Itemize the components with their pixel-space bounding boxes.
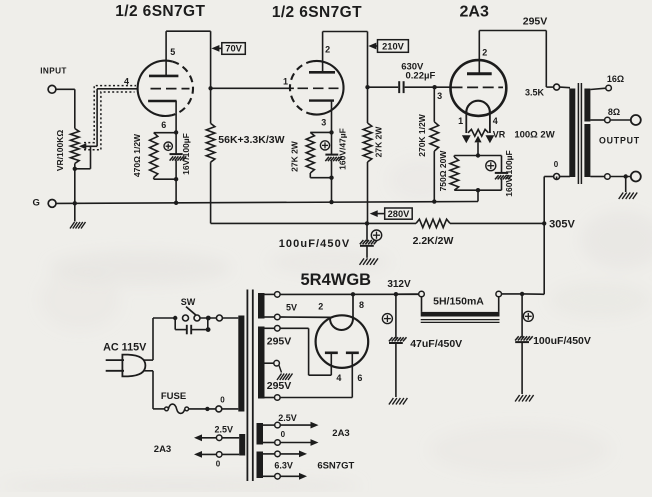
pin 1 label 2A3 [458, 116, 463, 126]
label VR/100K [55, 130, 65, 171]
wire choke to 312V node [396, 293, 419, 295]
tube 2A3 envelope [451, 60, 507, 116]
wire wiper up to grid [97, 89, 137, 147]
tube V1 plate lead [165, 31, 167, 76]
label 0 right [281, 430, 286, 439]
junction on G bus at x331 [329, 200, 333, 204]
label 2A3 left [154, 444, 171, 455]
primary top terminal [216, 315, 222, 321]
svg-text:3: 3 [437, 91, 442, 101]
filament leads [466, 113, 490, 134]
wire 5V bottom tap [265, 316, 275, 318]
arrow 210V test point [368, 43, 377, 50]
junction switch right [206, 316, 211, 321]
INPUT label [40, 66, 67, 75]
junction 305V node [542, 221, 546, 225]
chassis ground OPT [619, 193, 638, 200]
wire pin 4 to HV tap [280, 328, 331, 375]
arrow 2.5V to 2A3 [280, 422, 318, 429]
OPT secondary winding upper [584, 89, 590, 122]
svg-text:27K 2W: 27K 2W [374, 126, 384, 158]
svg-text:100Ω 2W: 100Ω 2W [514, 130, 554, 141]
junction V1 cathode top [174, 130, 178, 134]
svg-text:4: 4 [493, 116, 498, 126]
pin 1 label [283, 77, 288, 87]
label 295V (plate supply) [523, 15, 548, 27]
label 630V [401, 62, 424, 73]
wire V2 cathode net to G bus [331, 178, 333, 202]
potentiometer VR/100K ohm [71, 129, 80, 164]
OPT secondary winding lower [584, 124, 590, 177]
resistor 270K 1/2W grid leak [430, 87, 439, 201]
junction 0 tap ground [624, 174, 628, 178]
arrow 6.3V top [280, 451, 307, 458]
svg-text:0.22µF: 0.22µF [406, 71, 436, 82]
svg-text:6: 6 [161, 120, 166, 130]
svg-text:305V: 305V [549, 219, 575, 231]
wire 8 ohm tap [590, 119, 604, 121]
tube 5R4 plate left [325, 351, 338, 354]
label 295V upper [267, 336, 292, 348]
svg-text:2: 2 [325, 45, 330, 55]
wire V2 plate top rail [323, 31, 368, 33]
wire coupling cap to 2A3 grid [405, 86, 435, 88]
input terminal [48, 85, 56, 93]
capacitor C2 160V/47uF [325, 132, 342, 177]
plus symbol C4 [486, 161, 496, 171]
wire terminal to primary winding bottom [222, 408, 239, 410]
8 ohm tap terminal [605, 117, 611, 123]
wire V2 cathode net bottom [310, 177, 331, 179]
pin 3 label [321, 118, 326, 128]
label 100uF/450V reservoir [533, 335, 591, 347]
chassis ground C3 [360, 258, 379, 265]
tube V1 envelope dashed arc [172, 62, 194, 116]
tube V1 grid (dashed) [151, 88, 190, 90]
tube 5R4 plate right [346, 351, 359, 354]
wire V2 plate to coupling cap [368, 86, 399, 88]
svg-text:1: 1 [458, 116, 463, 126]
wire switch to primary [200, 317, 216, 319]
left 2.5V top terminal [216, 435, 222, 441]
label 2A3 right [332, 428, 349, 439]
label 3.5K [525, 87, 545, 97]
label 8 ohm [608, 107, 620, 117]
chassis ground C6 [515, 395, 534, 402]
HV bottom tap terminal 295V [275, 395, 281, 401]
wire pin 2 from 5V tap [280, 316, 330, 318]
svg-text:280V: 280V [388, 209, 411, 219]
ground terminal G [48, 200, 56, 208]
svg-text:160V/47µF: 160V/47µF [338, 128, 348, 170]
tube V1 cathode lead [175, 101, 177, 132]
wire pin 8 from rail [352, 294, 354, 318]
svg-text:6SN7GT: 6SN7GT [317, 460, 354, 471]
svg-text:70V: 70V [225, 44, 242, 54]
wire 2A3 plate rail 295V [479, 31, 553, 88]
OPT core [578, 83, 581, 184]
left 2.5V bottom terminal [216, 452, 222, 458]
junction G bus input [73, 201, 77, 205]
wire left 2.5V top tap [222, 437, 239, 439]
label SW [181, 297, 196, 307]
wire HV bottom tap [265, 397, 275, 399]
primary bottom terminal [216, 406, 222, 412]
svg-text:470Ω 1/2W: 470Ω 1/2W [132, 133, 142, 177]
svg-text:2.5V: 2.5V [215, 425, 234, 435]
label 270K 1/2W [417, 113, 427, 156]
wire 6.3V top tap [263, 453, 275, 455]
wire primary bottom to 305V [544, 177, 556, 224]
wire 8 ohm to output [610, 119, 631, 121]
svg-text:47uF/450V: 47uF/450V [410, 338, 462, 350]
label 56K+3.3K/3W [218, 134, 284, 146]
svg-text:0: 0 [554, 160, 559, 169]
svg-text:3.5K: 3.5K [525, 87, 545, 97]
label 750R 20W [438, 150, 448, 192]
pin 6 label [357, 373, 362, 383]
svg-text:16Ω: 16Ω [607, 74, 624, 84]
PT 2.5V winding left [239, 434, 245, 456]
junction switch left [173, 316, 177, 320]
label 0.22uF [406, 71, 436, 82]
wire V1 cathode net to G bus [175, 179, 177, 203]
output terminal 0 [631, 172, 641, 182]
junction 2A3 grid node [432, 85, 436, 89]
wire wiper tie to VR bottom [75, 146, 91, 169]
wire input to VR top [56, 89, 75, 128]
wire 0 tap ground drop [625, 177, 627, 193]
wire primary bottom [560, 176, 570, 178]
label 0 primary bottom [220, 396, 225, 405]
pin 8 label [359, 300, 364, 310]
label 2.2K/2W [413, 235, 454, 247]
svg-text:2A3: 2A3 [332, 428, 349, 439]
arrow left 0 [194, 451, 216, 458]
junction 100uF PSU [520, 292, 524, 296]
switch SW [183, 307, 201, 321]
pin 3 label 2A3 [437, 91, 442, 101]
label 5V [286, 303, 297, 313]
wire V1 plate to V2 grid [211, 87, 294, 89]
label 312V [387, 279, 411, 290]
label FUSE [161, 391, 186, 402]
tube V1 envelope solid arc [138, 61, 173, 116]
arrow left 2.5V [194, 434, 216, 441]
junction V2 cathode top [329, 130, 333, 134]
label 305V [549, 219, 575, 231]
svg-text:AC 115V: AC 115V [103, 341, 147, 353]
tube V2 cathode [309, 99, 334, 101]
label 5H/150mA [433, 296, 484, 308]
capacitor C4 160V/100uF [495, 156, 512, 191]
label 160V/47uF [338, 128, 348, 170]
wire 27K to 280V rail [367, 162, 369, 223]
label AC 115V [103, 341, 147, 353]
2.5V bottom tap terminal [275, 440, 281, 446]
VR wiper arrow [79, 143, 97, 149]
label 6SN7GT heaters [317, 460, 354, 471]
resistor 27K 2W cathode [306, 132, 314, 177]
svg-text:6: 6 [357, 373, 362, 383]
resistor 470 ohm 1/2W [150, 133, 158, 180]
plus symbol C3 [371, 230, 381, 240]
label 2A3 (output tube title) [460, 4, 489, 21]
junction C2 bottom [329, 176, 333, 180]
svg-text:100uF/450V: 100uF/450V [533, 335, 591, 347]
tube V2 plate [309, 71, 335, 74]
label 6.3V [274, 460, 293, 470]
wire grid node into 2A3 [435, 86, 451, 88]
junction 270K on G bus [432, 199, 436, 203]
wire left 2.5V bottom tap [222, 453, 239, 455]
wire HV center tap [265, 362, 274, 364]
junction C1 bottom [174, 177, 178, 181]
chassis ground C5 [389, 398, 408, 405]
voltage box 210V [378, 40, 409, 53]
wire bias net bottom [454, 189, 501, 191]
label 27K 2W cathode [290, 140, 300, 172]
tube V2 plate lead [322, 32, 324, 73]
label VR [493, 130, 506, 140]
wire terminal to primary [560, 86, 570, 89]
svg-text:295V: 295V [267, 380, 292, 392]
svg-text:VR/100KΩ: VR/100KΩ [55, 130, 65, 171]
wire 2.5V top tap [263, 424, 275, 426]
svg-text:6.3V: 6.3V [274, 460, 293, 470]
plus symbol C6 [523, 311, 533, 321]
voltage box 280V [385, 208, 413, 219]
wire cathode net bottom [154, 178, 176, 180]
junction 280V node [365, 221, 369, 225]
junction fuse line [205, 407, 209, 411]
resistor 2.2K/2W [416, 219, 450, 227]
svg-text:27K 2W: 27K 2W [290, 140, 300, 172]
wire 2.2K to 305V node [450, 222, 544, 224]
capacitor C3 100uF/450V [360, 223, 378, 257]
HV center tap terminal [274, 360, 280, 366]
wire 280V rail [211, 222, 416, 224]
arrow 280V test point [370, 210, 385, 217]
wire junction to choke [501, 293, 522, 295]
wire plate rail down V1 [210, 31, 212, 123]
OPT primary top terminal [554, 84, 560, 90]
svg-text:5: 5 [170, 47, 175, 57]
label 1/2 6SN7GT (first stage title) [115, 3, 205, 20]
G label [33, 197, 40, 208]
resistor 27K 2W plate load [363, 123, 372, 162]
svg-text:5H/150mA: 5H/150mA [433, 296, 484, 308]
chassis ground center tap [277, 374, 293, 381]
svg-text:3: 3 [321, 118, 326, 128]
label 1/2 6SN7GT (second stage title) [272, 4, 362, 21]
junction bias net bottom [476, 188, 480, 192]
plus symbol C1 [164, 142, 172, 150]
fuse [165, 404, 216, 413]
pin 6 label [161, 120, 166, 130]
capacitor C1 16V/100uF [170, 133, 187, 180]
wire cathode net top [154, 132, 176, 134]
label 2.5V left [215, 425, 234, 435]
capacitor C6 100uF/450V [515, 294, 533, 394]
svg-text:INPUT: INPUT [40, 66, 67, 75]
tube V1 plate [149, 75, 178, 78]
junction VR bottom [73, 167, 77, 171]
label 470R 1/2W [132, 133, 142, 177]
wire plate rail down V2 [367, 32, 369, 124]
wire 305V down to PSU rail [524, 223, 544, 294]
svg-text:160V/100µF: 160V/100µF [504, 150, 514, 196]
plus symbol C2 [320, 141, 329, 150]
capacitor 0.22uF coupling [399, 81, 403, 93]
svg-text:0: 0 [216, 460, 221, 469]
label OUTPUT [599, 135, 640, 145]
label 295V lower [267, 380, 292, 392]
pin 4 label [336, 373, 341, 383]
wire plug to switch [143, 318, 175, 360]
svg-text:750Ω 20W: 750Ω 20W [438, 150, 448, 192]
svg-text:G: G [33, 197, 40, 208]
svg-text:295V: 295V [523, 15, 548, 27]
tube 5R4 envelope [316, 315, 369, 368]
wire 2.5V bottom tap [263, 442, 275, 444]
tube 2A3 filament arch [466, 101, 490, 113]
junction wiper on top rail [476, 153, 480, 157]
resistor 56K+3.3K/3W [206, 123, 215, 162]
pin 4 label 2A3 [493, 116, 498, 126]
tube 2A3 plate lead [478, 31, 480, 74]
wire to chassis ground input [74, 203, 76, 221]
chassis ground input [70, 222, 86, 229]
svg-text:210V: 210V [382, 42, 405, 52]
OPT primary winding [569, 89, 575, 178]
wire 6.3V bottom tap [263, 475, 275, 477]
choke right terminal [496, 291, 502, 297]
wire V2 cathode net top [310, 131, 331, 133]
svg-text:2: 2 [482, 47, 487, 57]
switch snubber capacitor [175, 318, 210, 334]
svg-text:312V: 312V [387, 279, 411, 290]
PT 6.3V winding [257, 452, 264, 479]
arrow 6.3V bottom [280, 473, 307, 480]
capacitor C5 47uF/450V [389, 294, 407, 397]
filament arrow left [462, 135, 471, 143]
PT HV winding [258, 327, 265, 399]
svg-text:8: 8 [359, 300, 364, 310]
HV top tap terminal 295V [275, 326, 281, 332]
wire PSU rail left [280, 293, 419, 295]
svg-text:5R4WGB: 5R4WGB [301, 271, 372, 289]
svg-text:1/2 6SN7GT: 1/2 6SN7GT [272, 4, 362, 21]
label 2.5V right [278, 413, 297, 423]
PT primary winding [238, 316, 244, 412]
svg-text:2A3: 2A3 [154, 444, 171, 455]
junction rectifier output [351, 292, 355, 296]
wire bias net to G bus [477, 190, 479, 201]
6.3V top tap terminal [275, 451, 281, 457]
svg-text:SW: SW [181, 297, 196, 307]
svg-text:1: 1 [283, 77, 288, 87]
svg-text:OUTPUT: OUTPUT [599, 135, 640, 145]
wire bias net top [454, 155, 501, 157]
shield inner dotted line [84, 92, 135, 150]
tube 2A3 grid (dashed) [452, 86, 504, 88]
16 ohm tap terminal [606, 85, 612, 91]
wire pin 6 to HV tap [280, 353, 352, 398]
pin 5 label [170, 47, 175, 57]
wire plug to fuse [143, 371, 165, 409]
svg-text:270K 1/2W: 270K 1/2W [417, 113, 427, 156]
choke left terminal [419, 291, 425, 297]
wire terminal to primary winding [222, 317, 238, 319]
svg-text:295V: 295V [267, 336, 292, 348]
tube 2A3 plate [467, 72, 492, 75]
pin 2 label [318, 302, 323, 312]
node 70V junction [208, 86, 212, 90]
svg-text:VR: VR [493, 130, 506, 140]
pin 2 label [325, 45, 330, 55]
svg-text:4: 4 [124, 77, 129, 87]
AC plug body [122, 355, 145, 377]
label 5R4WGB title [301, 271, 372, 289]
label 16 ohm [607, 74, 624, 84]
label 47uF/450V [410, 338, 462, 350]
OPT primary bottom terminal [554, 174, 560, 180]
svg-text:2.2K/2W: 2.2K/2W [413, 235, 454, 247]
wire 16 ohm tap [590, 88, 605, 89]
svg-text:2A3: 2A3 [460, 4, 489, 21]
resistor 750 ohm 20W [450, 156, 459, 191]
tube V2 cathode lead [331, 101, 333, 133]
wire 5V top tap [265, 293, 275, 295]
wire HV top tap [265, 327, 275, 329]
wire 56K to 280V rail [210, 162, 212, 223]
pin 2 label 2A3 [482, 47, 487, 57]
label 100uF/450V decoupling [279, 238, 351, 250]
PT core [247, 290, 252, 482]
svg-text:1/2 6SN7GT: 1/2 6SN7GT [115, 3, 205, 20]
junction on G bus at x176 [174, 201, 178, 205]
hum pot wiper arrow [474, 136, 481, 156]
0 tap terminal [605, 174, 611, 180]
label 16V/100uF [181, 133, 191, 175]
wire 0 tap to output [610, 176, 631, 178]
pin 4 label [124, 77, 129, 87]
2.5V top tap terminal [275, 422, 281, 428]
output terminal 8 ohm [631, 115, 641, 125]
5V top tap terminal [275, 292, 281, 298]
node 210V junction [365, 85, 369, 89]
filament arrow right [486, 135, 495, 143]
G bus wire [56, 202, 478, 204]
svg-text:8Ω: 8Ω [608, 107, 620, 117]
AC plug prongs [106, 360, 124, 371]
voltage box 70V [222, 43, 246, 55]
PT 2.5V winding right [257, 423, 264, 445]
wire 0 tap [590, 176, 604, 178]
svg-text:0: 0 [281, 430, 286, 439]
plus symbol C5 [382, 314, 392, 324]
svg-text:16V/100µF: 16V/100µF [181, 133, 191, 175]
svg-text:100uF/450V: 100uF/450V [279, 238, 351, 250]
tube V2 envelope dashed arc [290, 61, 313, 114]
svg-text:2.5V: 2.5V [278, 413, 297, 423]
svg-text:FUSE: FUSE [161, 391, 186, 402]
wire V1 plate top rail [166, 30, 211, 32]
svg-text:4: 4 [336, 373, 341, 383]
wire VR bottom to G bus [74, 164, 76, 204]
6.3V bottom tap terminal [275, 474, 281, 480]
